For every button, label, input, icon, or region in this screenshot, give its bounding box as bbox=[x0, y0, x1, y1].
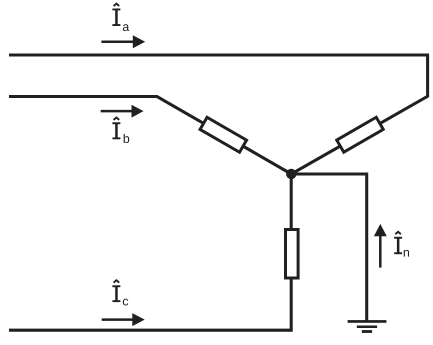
resistor Zb (impedance in phase b branch) bbox=[200, 117, 246, 152]
label Ia (I-hat with subscript a) bbox=[112, 4, 129, 32]
current arrow Ib bbox=[101, 105, 144, 118]
wire neutral: node to ground lead bbox=[291, 174, 366, 321]
ground bbox=[348, 320, 387, 333]
current arrow Ic bbox=[102, 313, 145, 326]
current arrow In (vertical, up) bbox=[374, 224, 387, 268]
resistor Za (impedance in phase a branch) bbox=[337, 117, 383, 152]
current arrow Ia bbox=[101, 35, 145, 48]
label Ib (I-hat with subscript b) bbox=[112, 118, 129, 144]
label In (I-hat with subscript n) bbox=[394, 232, 409, 257]
wire phase a (horizontal, right corner, diagonal to node) bbox=[9, 55, 428, 174]
label Ic (I-hat with subscript c) bbox=[112, 280, 128, 305]
node N (star point junction dot) bbox=[286, 169, 296, 179]
wire phase b (horizontal, corner, diagonal to node) bbox=[9, 97, 291, 175]
resistor Zc (impedance in phase c branch, vertical) bbox=[286, 230, 299, 279]
wire phase c: node down through Zc to bottom horizontal bbox=[9, 174, 291, 330]
